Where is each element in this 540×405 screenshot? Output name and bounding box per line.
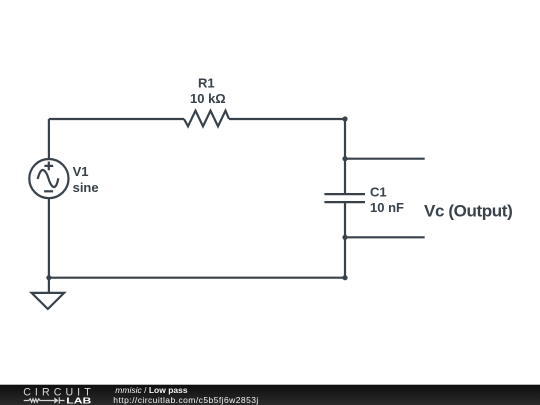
wire left vertical upper (V1 top lead): [48, 119, 50, 159]
svg-text:C1: C1: [370, 185, 387, 200]
svg-text:V1: V1: [73, 164, 89, 179]
wire top-right horizontal (R1 to output node): [229, 118, 345, 120]
junction dot output stub top: [342, 156, 347, 161]
CircuitLab logo: [23, 387, 91, 405]
junction dot top-right corner: [342, 116, 347, 121]
svg-text:R1: R1: [198, 76, 215, 91]
junction dot bottom-right corner: [342, 275, 347, 280]
capacitor C1: [324, 194, 365, 202]
svg-text:10 nF: 10 nF: [370, 200, 404, 215]
wire output stub top: [345, 158, 425, 160]
resistor R1: [184, 111, 229, 127]
footer bar: [0, 385, 540, 405]
wire left vertical lower (V1 bottom lead): [48, 198, 50, 278]
junction dot output stub bottom: [342, 235, 347, 240]
svg-text:Vc (Output): Vc (Output): [424, 201, 512, 220]
junction dot ground node: [46, 275, 51, 280]
voltage source V1: [29, 159, 68, 198]
wire right vertical lower (C1 to bottom wire): [344, 202, 346, 278]
wire output stub bottom: [345, 236, 425, 238]
ground: [32, 278, 65, 309]
svg-text:LAB: LAB: [66, 396, 91, 405]
wire top-left horizontal (V1 to R1): [49, 118, 184, 120]
svg-text:10 kΩ: 10 kΩ: [190, 91, 226, 106]
svg-text:mmisic / Low pass: mmisic / Low pass: [115, 385, 188, 395]
svg-text:sine: sine: [73, 180, 99, 195]
svg-text:http://circuitlab.com/c5b5fj6w: http://circuitlab.com/c5b5fj6w2853j: [113, 395, 258, 405]
wire bottom horizontal: [49, 277, 345, 279]
wire right vertical upper (output node to C1): [344, 119, 346, 194]
